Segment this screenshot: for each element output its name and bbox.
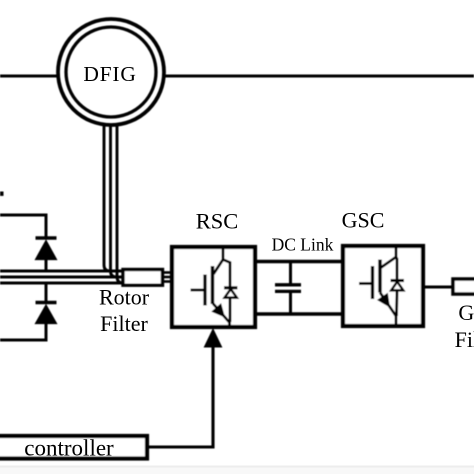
svg-text:Rotor: Rotor [99,285,150,310]
svg-text:DFIG: DFIG [83,62,136,86]
svg-text:DC Link: DC Link [272,235,334,255]
svg-text:Filter: Filter [455,327,474,352]
svg-text:Filter: Filter [100,311,148,336]
svg-text:controller: controller [24,436,114,461]
svg-text:GSC: GSC [342,208,385,233]
svg-text:Grid: Grid [458,300,474,325]
svg-text:RSC: RSC [196,209,239,234]
